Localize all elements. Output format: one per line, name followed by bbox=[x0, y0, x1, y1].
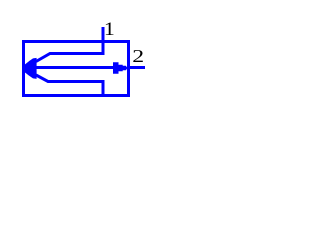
wire bottom branch bbox=[36, 75, 103, 95]
wire pin1 stub + top branch bbox=[36, 27, 103, 62]
arrowhead (large, left-pointing) bbox=[23, 58, 36, 79]
component body (box) bbox=[24, 42, 129, 96]
svg-text:2: 2 bbox=[132, 46, 144, 67]
arrowhead (small, right-pointing, pin 2) bbox=[113, 62, 128, 73]
svg-text:1: 1 bbox=[104, 19, 115, 39]
wire middle branch bbox=[34, 66, 114, 69]
wire pin2 stub bbox=[127, 66, 145, 69]
